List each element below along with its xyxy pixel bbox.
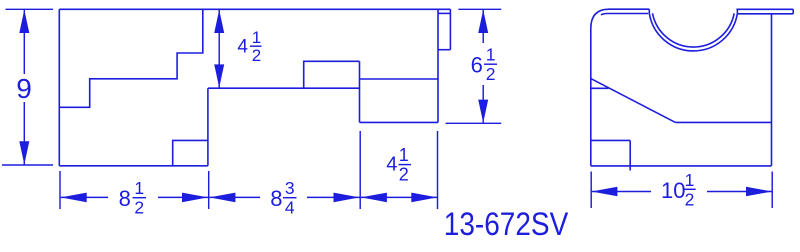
dimension 9: bottom extension line	[2, 164, 53, 166]
dimension 8.75: left arrow	[209, 193, 235, 203]
front view: ledge line	[591, 87, 609, 89]
front view: bottom edge	[591, 165, 772, 167]
bottom dims: extension line at x437	[437, 131, 439, 209]
svg-text:2: 2	[134, 198, 144, 218]
side view: bottom edge	[59, 165, 208, 167]
dimension 8.5: right line	[158, 196, 208, 198]
side view: top edge	[59, 8, 450, 10]
dimension 10.5: fraction bar	[683, 188, 696, 190]
svg-text:2: 2	[486, 64, 496, 84]
dimension 6.5: bottom extension line	[446, 122, 502, 124]
svg-text:4: 4	[386, 154, 397, 176]
svg-text:1: 1	[252, 28, 261, 47]
dimension 4.5 vertical: fraction bar	[250, 45, 262, 47]
dimension 6.5: up arrow	[478, 10, 488, 33]
front view: top-left corner arc	[591, 9, 609, 28]
svg-text:1: 1	[134, 178, 144, 198]
dimension 8.75: fraction bar	[283, 197, 297, 199]
dimension 4.5 bottom: right arrow	[411, 193, 437, 203]
front view: top edge	[609, 8, 649, 10]
front view: notch right shoulder	[736, 9, 738, 13]
svg-text:4: 4	[237, 37, 248, 58]
dimension 9: lower line	[23, 102, 25, 165]
front view: left edge	[590, 29, 592, 166]
side view: stair profile	[59, 9, 203, 107]
dimension 10.5: right arrow	[746, 187, 772, 197]
side view: divider vertical edge	[359, 61, 361, 122]
dimension 6.5: lower line	[482, 85, 484, 123]
bottom dims: extension line at x209	[208, 171, 210, 209]
side view: right section bottom edge	[360, 121, 439, 123]
dimension 9: upper line	[23, 10, 25, 74]
side view: upper block	[304, 61, 360, 88]
svg-text:2: 2	[399, 164, 409, 184]
svg-text:2: 2	[685, 189, 695, 209]
dimension 6.5: down arrow	[478, 100, 488, 123]
dimension 10.5: right line	[707, 191, 772, 193]
front view: top inner line	[601, 14, 648, 16]
front view: tab right end	[792, 9, 794, 14]
front view: lower horizontal edge	[675, 121, 771, 123]
dimension 9: top extension line	[6, 8, 54, 10]
dimension 4.5 vertical: down arrow	[214, 64, 224, 87]
side view: mid horizontal edge	[208, 87, 360, 89]
dimension 8.5: fraction bar	[133, 197, 147, 199]
dimension 4.5 bottom: left arrow	[361, 193, 387, 203]
svg-text:10: 10	[661, 178, 685, 203]
dimension 8.5: left arrow	[61, 193, 87, 203]
front view: notch left shoulder	[648, 9, 650, 13]
dimension 4.5 bottom: fraction bar	[399, 164, 412, 166]
front view: tab top edge	[736, 8, 793, 10]
svg-text:3: 3	[285, 178, 295, 198]
dimension 9: up arrow	[19, 10, 29, 33]
dimension 8.75: left line	[209, 196, 260, 198]
svg-text:6: 6	[471, 52, 483, 77]
dimension 6.5: fraction bar	[484, 63, 497, 65]
side view: middle vertical edge	[207, 88, 209, 166]
dimension 4.5 bottom: line	[361, 196, 437, 198]
dimension 4.5 vertical: up arrow	[214, 10, 224, 33]
front view: bottom-left block right edge	[629, 140, 631, 170]
side view: bottom-left block	[173, 140, 208, 165]
svg-text:8: 8	[119, 186, 131, 211]
dimension 9: down arrow	[19, 141, 29, 164]
dimension 10.5: left extension line	[590, 172, 592, 209]
front view: right edge	[771, 14, 773, 166]
svg-text:9: 9	[16, 73, 32, 104]
svg-text:2: 2	[252, 46, 261, 65]
dimension 4.5 vertical: line	[218, 10, 220, 88]
front view: diagonal edge	[591, 79, 676, 123]
dimension 8.75: right arrow	[334, 193, 360, 203]
bottom dims: extension line at x60	[59, 171, 61, 209]
front view: notch outer arc	[649, 13, 737, 51]
dimension 6.5: top extension line	[458, 8, 501, 10]
side view: tab bottom edge	[438, 49, 450, 51]
svg-text:1: 1	[486, 45, 496, 65]
front view: notch inner arc	[653, 13, 735, 47]
dimension 10.5: left arrow	[591, 187, 617, 197]
side view: left edge	[58, 9, 60, 166]
side view: tab inner line	[438, 12, 450, 14]
dimension 10.5: right extension line	[771, 172, 773, 209]
svg-text:8: 8	[270, 186, 282, 211]
dimension 10.5: left line	[591, 191, 651, 193]
front view: tab underside	[737, 13, 793, 15]
side view: right edge	[437, 9, 439, 122]
bottom dims: extension line at x360	[359, 131, 361, 209]
svg-text:1: 1	[685, 170, 695, 190]
svg-text:4: 4	[285, 198, 295, 218]
side view: tab right edge	[449, 9, 451, 49]
front view: bottom-left block top	[591, 139, 630, 141]
svg-text:1: 1	[399, 145, 409, 165]
dimension 8.5: right arrow	[182, 193, 208, 203]
dimension 8.75: right line	[307, 196, 360, 198]
svg-text:13-672SV: 13-672SV	[444, 207, 568, 242]
dimension 6.5: upper line	[482, 10, 484, 43]
side view: right section top edge	[360, 78, 439, 80]
dimension 8.5: left line	[61, 196, 108, 198]
